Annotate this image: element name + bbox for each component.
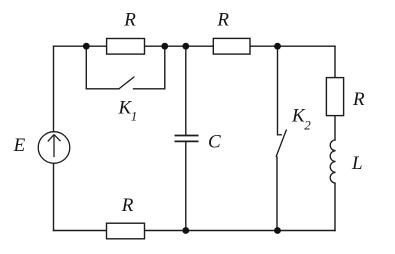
wire K2 branch upper [277, 46, 279, 135]
resistor R4 bottom [107, 223, 145, 239]
node dot bottom capacitor [182, 227, 189, 234]
node dot top K1 left [83, 43, 90, 50]
svg-text:R: R [216, 10, 229, 31]
wire K1 branch left horizontal [86, 88, 119, 90]
svg-text:C: C [208, 131, 221, 152]
inductor L coil [330, 140, 335, 183]
wire top rail [54, 45, 336, 47]
wire bottom rail [54, 230, 336, 232]
svg-text:R: R [123, 10, 136, 31]
switch K1 [119, 77, 134, 89]
wire K1 branch right vertical [164, 46, 166, 89]
switch K2 [276, 130, 287, 158]
node dot bottom K2 [274, 227, 281, 234]
wire right rail middle [334, 116, 336, 140]
wire left rail lower [53, 163, 55, 230]
wire capacitor branch upper [185, 46, 187, 135]
svg-text:L: L [351, 153, 363, 174]
wire K2 branch lower [276, 157, 278, 231]
wire left rail upper [53, 46, 55, 132]
svg-text:2: 2 [304, 118, 311, 133]
resistor R2 top-middle [213, 38, 250, 54]
wire right rail upper [334, 46, 336, 77]
wire capacitor branch lower [185, 142, 187, 231]
svg-text:R: R [121, 195, 134, 216]
source E arrow [48, 135, 61, 158]
resistor R1 top-left [107, 39, 145, 55]
capacitor C plates [175, 136, 199, 142]
node dot top K1 right [161, 43, 168, 50]
wire K1 branch left vertical [85, 46, 87, 89]
source E circle [38, 132, 70, 164]
wire K1 branch right horizontal [134, 88, 165, 90]
svg-text:1: 1 [131, 109, 138, 124]
resistor R3 right vertical [326, 78, 343, 116]
node dot top K2 [274, 43, 281, 50]
svg-text:R: R [352, 89, 365, 110]
svg-text:E: E [13, 135, 26, 156]
node dot top capacitor [182, 43, 189, 50]
wire right rail lower [334, 183, 336, 230]
